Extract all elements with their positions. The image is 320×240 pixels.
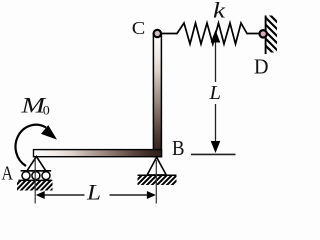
svg-text:0: 0	[43, 103, 50, 118]
svg-text:k: k	[213, 0, 226, 23]
svg-text:A: A	[2, 163, 14, 185]
svg-text:C: C	[132, 18, 146, 38]
svg-text:B: B	[172, 136, 185, 160]
svg-text:L: L	[86, 180, 101, 205]
svg-text:L: L	[208, 82, 221, 104]
svg-text:D: D	[254, 55, 269, 79]
